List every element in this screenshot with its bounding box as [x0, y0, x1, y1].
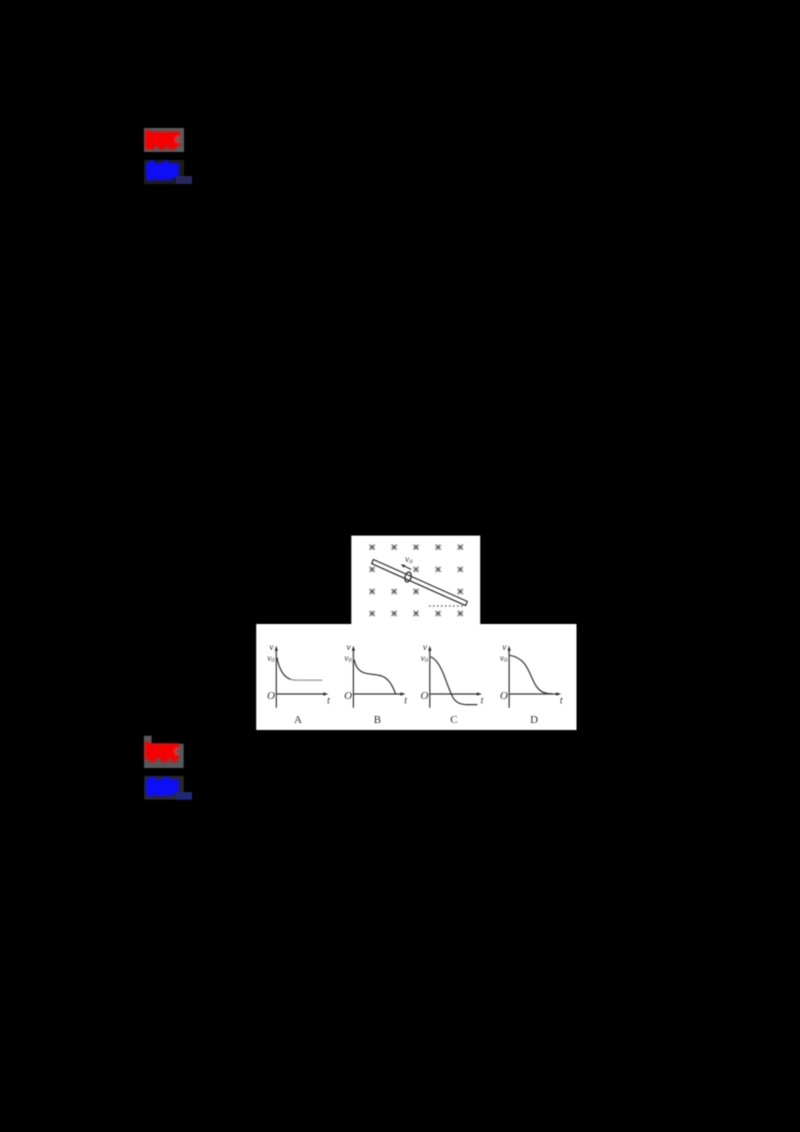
conducting rod (tube)	[372, 560, 468, 606]
dotted guide line under rod end	[429, 605, 464, 607]
answer badge 1 gray background	[144, 128, 184, 152]
svg-text:O: O	[500, 690, 508, 702]
graph D: v axis	[509, 649, 557, 708]
velocity arrow v0	[404, 566, 411, 570]
figure panel (rod in magnetic field) white background	[351, 536, 480, 625]
analysis badge 2 dark background	[144, 776, 184, 800]
svg-text:O: O	[267, 690, 275, 702]
svg-text:O: O	[421, 690, 429, 702]
graph A curve	[277, 658, 291, 680]
answer badge 1 red text blob	[145, 130, 180, 150]
svg-text:t: t	[481, 696, 484, 707]
svg-text:t: t	[404, 696, 407, 707]
graph D curve	[510, 655, 553, 693]
answer badge 2 red text blob	[145, 742, 180, 763]
graph B: v axis	[353, 649, 401, 708]
graphs panel white background	[256, 624, 576, 730]
analysis badge 2 navy tab	[176, 792, 192, 800]
svg-text:t: t	[327, 696, 330, 707]
magnetic field x marks grid	[370, 545, 463, 616]
graph C: v axis	[430, 649, 478, 708]
analysis badge 1 navy tab	[176, 176, 192, 184]
graph A: v axis	[276, 649, 324, 708]
svg-text:C: C	[450, 714, 457, 726]
analysis badge 2 blue text blob	[146, 777, 179, 797]
svg-text:B: B	[374, 714, 381, 726]
analysis badge 1 dark background	[144, 160, 184, 184]
ring on rod	[404, 571, 412, 582]
graph B curve	[354, 660, 395, 694]
graph C curve	[431, 657, 478, 705]
answer badge 2 gray background (with notch)	[144, 736, 184, 768]
svg-text:D: D	[530, 714, 538, 726]
svg-text:t: t	[560, 696, 563, 707]
svg-text:O: O	[344, 690, 352, 702]
svg-text:A: A	[294, 714, 302, 726]
analysis badge 1 blue text blob	[146, 161, 179, 181]
